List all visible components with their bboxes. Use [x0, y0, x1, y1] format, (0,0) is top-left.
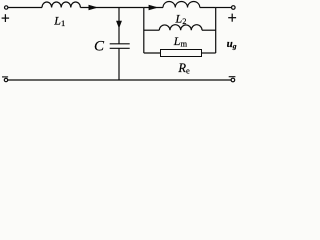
- wire left rail to Lm: [144, 29, 160, 31]
- svg-text:C: C: [94, 39, 105, 55]
- wire node B to L2: [144, 7, 163, 9]
- wire top-left: [8, 7, 42, 9]
- right rail of parallel network: [215, 8, 217, 54]
- wire L1 to node A: [80, 7, 119, 9]
- inductor L1: [42, 2, 80, 8]
- wire Lm to right rail: [202, 29, 216, 31]
- label plus output polarity: [228, 14, 236, 22]
- current arrow down to C: [117, 21, 122, 28]
- left rail of parallel network: [143, 8, 145, 54]
- label minus input polarity: [2, 76, 8, 78]
- terminal T2 output plus: [232, 6, 236, 10]
- inductor Lm: [159, 25, 202, 30]
- label plus input polarity: [2, 14, 10, 22]
- wire left rail to Re: [144, 52, 161, 54]
- terminal T4 output minus: [231, 78, 235, 82]
- current arrow after L1: [89, 5, 97, 10]
- current arrow into L2: [149, 5, 157, 10]
- wire capacitor to bottom rail: [118, 48, 120, 80]
- wire node A down to capacitor: [118, 8, 120, 44]
- terminal T1 input plus: [5, 6, 8, 9]
- label minus output polarity: [229, 76, 236, 78]
- bottom wire: [8, 79, 231, 81]
- wire L2 to right rail: [200, 7, 216, 9]
- terminal T3 input minus: [4, 78, 7, 81]
- inductor L2: [163, 1, 200, 7]
- capacitor C: [110, 44, 130, 49]
- resistor Re: [161, 50, 202, 57]
- wire right rail to output terminal: [216, 7, 232, 9]
- wire Re to right rail: [202, 52, 216, 54]
- wire node A to node B: [119, 7, 144, 9]
